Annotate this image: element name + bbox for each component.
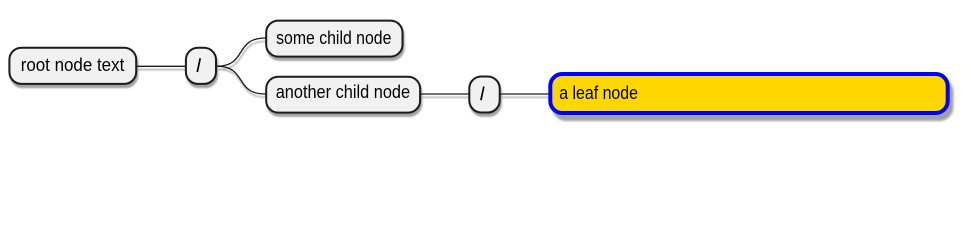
svg-text:a leaf node: a leaf node (559, 83, 638, 103)
svg-text:root node text: root node text (21, 55, 125, 75)
svg-text:another child node: another child node (276, 82, 410, 102)
svg-text:some child node: some child node (276, 28, 391, 48)
